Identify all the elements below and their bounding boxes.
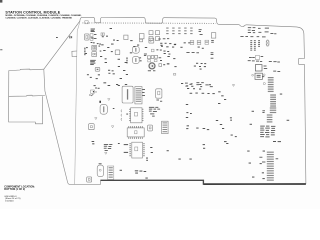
resistor R18 <box>149 37 153 41</box>
footer date <box>5 200 14 202</box>
test point TP6 <box>173 74 175 76</box>
bottom edge left segment <box>44 69 101 184</box>
footer line COMPONENT LOCATION <box>4 185 35 188</box>
title STATION CONTROL MODULE <box>5 11 60 15</box>
bracket contacts E1 <box>120 110 123 121</box>
test point TP9 <box>108 99 110 101</box>
scattered marks bottom center <box>178 144 205 159</box>
model number line 2 <box>5 16 72 19</box>
resistor R17 <box>156 31 160 35</box>
label R12 <box>110 27 112 30</box>
resistor network RN2 <box>254 40 256 51</box>
card-edge contact dotted line <box>83 22 216 25</box>
label block right dense <box>260 126 275 138</box>
label cluster FL1 <box>186 52 199 53</box>
connector tab J2 (upper left) <box>9 69 45 96</box>
test point TP10 <box>95 118 97 120</box>
connector pin ladder P1b <box>270 94 276 106</box>
center sparse marks <box>190 93 215 95</box>
label R21 <box>199 29 203 35</box>
bottom edge right heavy segment <box>203 183 306 185</box>
pin ladder P3 <box>108 166 114 179</box>
mark d1 <box>186 104 209 130</box>
label block TP group <box>149 107 160 117</box>
label cluster G2 <box>196 82 212 87</box>
connector pin ladder P1 <box>262 76 273 92</box>
marks 86-92 y74-78 <box>87 74 100 88</box>
left margin speck <box>0 48 2 51</box>
resistor R14 <box>124 35 128 39</box>
cluster marks center top <box>160 42 190 47</box>
label R44 <box>211 40 214 42</box>
square right of L1 <box>159 63 170 66</box>
resistor R15 <box>139 34 144 39</box>
capacitor C31 <box>149 38 154 43</box>
capacitor C21 <box>92 45 100 50</box>
marks far right <box>250 94 290 125</box>
test point TP11 <box>111 126 113 128</box>
label cluster bottom-mid <box>185 83 192 87</box>
small squares row2 cluster <box>139 49 162 62</box>
resistor R52 <box>151 55 157 58</box>
footer line BOTTOM <box>4 188 25 191</box>
test point TP14 <box>105 152 107 154</box>
tick mark right center <box>232 85 234 87</box>
label block L5 <box>90 60 96 65</box>
capacitor C120 <box>97 163 103 176</box>
cluster marks center mid <box>163 47 203 55</box>
marks near 103,50 <box>100 44 114 86</box>
IC U2 <box>85 34 90 40</box>
diode CR20 on edge <box>87 177 92 182</box>
resistor pair R42 <box>197 40 201 44</box>
small rect below first tab <box>85 21 88 24</box>
marks TP row bottom-left <box>92 141 95 144</box>
label L2 <box>144 54 147 56</box>
capacitor pair C61 <box>115 50 120 55</box>
bracket tab on left edge <box>72 51 77 57</box>
svg-text:BOTTOM (1 OF 2): BOTTOM (1 OF 2) <box>4 188 25 191</box>
electrolytic capacitor C100 <box>118 85 133 103</box>
label row above C71 <box>240 36 265 37</box>
svg-text:CLN6991E, CLN7467E, CLN7462E,: CLN6991E, CLN7467E, CLN7462E, CLN7465E, … <box>5 16 72 19</box>
cluster marks center 62-69 <box>194 63 206 70</box>
label block N1 <box>104 144 113 151</box>
bottom right marks <box>224 141 281 179</box>
stadium cap C41 <box>133 46 140 53</box>
label C52 <box>159 56 162 59</box>
label VR2 <box>91 29 95 32</box>
svg-text:1/1/2004: 1/1/2004 <box>5 200 14 202</box>
cluster marks 107-115 y69-76 <box>105 51 115 74</box>
flex fold diagonal D1 <box>44 21 80 69</box>
pin ladder U13 <box>162 121 169 133</box>
resistor R19 <box>156 37 160 41</box>
mark near P3 <box>120 169 122 172</box>
model number line 1 <box>5 14 82 17</box>
scattered marks left-center <box>116 59 128 85</box>
cluster R61 <box>89 88 97 96</box>
cluster K1 <box>248 56 264 62</box>
crystal holes Y2 <box>266 40 269 46</box>
marks left column mid <box>216 91 226 128</box>
page corner registration mark <box>0 0 2 3</box>
resistor R11 <box>90 34 96 44</box>
IC U11 <box>156 89 163 102</box>
crystal Y1 <box>255 61 280 72</box>
capacitor C90 <box>100 104 107 114</box>
pin ladder P2 <box>262 107 276 122</box>
speck left of edge <box>56 36 58 39</box>
specks quadrant4 top <box>186 112 191 114</box>
IC U14a horizontal <box>127 126 144 139</box>
resistor R51 <box>148 56 151 59</box>
extra scattered marks lower center <box>167 117 264 173</box>
resistor R31 <box>140 39 143 42</box>
svg-text:STATION CONTROL MODULE: STATION CONTROL MODULE <box>5 11 60 15</box>
vertical label left of C21 <box>84 48 85 56</box>
test pad grid TP row <box>166 28 192 35</box>
pin ladder P4 tall <box>259 152 278 181</box>
label C11 <box>97 33 119 45</box>
extra marks upper-left density <box>85 38 135 80</box>
toroid inductor L1 <box>149 63 155 69</box>
labels right of U10 <box>142 89 145 96</box>
IC U12 <box>126 108 143 123</box>
diode CR8 <box>89 124 95 130</box>
marks right of U14 <box>146 147 153 161</box>
small mark above C90 <box>99 101 114 109</box>
resistor pair R43 <box>205 40 209 44</box>
transformer T1 <box>252 73 265 79</box>
resistor network RN3 <box>258 33 276 47</box>
capacitor C25 <box>211 33 215 38</box>
diode CR3 <box>95 67 100 71</box>
vertical label col x126 <box>127 57 128 63</box>
label R46 <box>211 52 214 58</box>
footer doc number <box>4 196 17 198</box>
board outline <box>80 17 306 184</box>
denser cluster y83-89 <box>181 83 211 90</box>
extra marks mid row2 <box>137 44 183 67</box>
resistor network RN1 <box>250 40 252 51</box>
board left edge <box>75 21 80 184</box>
connector tab J3 (lower left) <box>9 96 43 124</box>
IC U14b vertical <box>118 142 145 158</box>
resistor R16 <box>149 31 153 35</box>
label row R33 <box>158 38 169 39</box>
label J4 <box>69 36 72 39</box>
resistor pair R41 <box>190 40 194 44</box>
bottom edge step <box>100 180 203 185</box>
bottom mid marks <box>135 170 148 178</box>
top shelf labels C81 <box>248 27 269 33</box>
capacitor C22 <box>92 51 101 57</box>
footer sheet <box>5 197 21 200</box>
diode CR12 <box>148 125 153 131</box>
stadium cap C42 <box>133 57 140 64</box>
pin ladder U10 top <box>135 87 142 104</box>
label under L1 <box>148 69 156 72</box>
